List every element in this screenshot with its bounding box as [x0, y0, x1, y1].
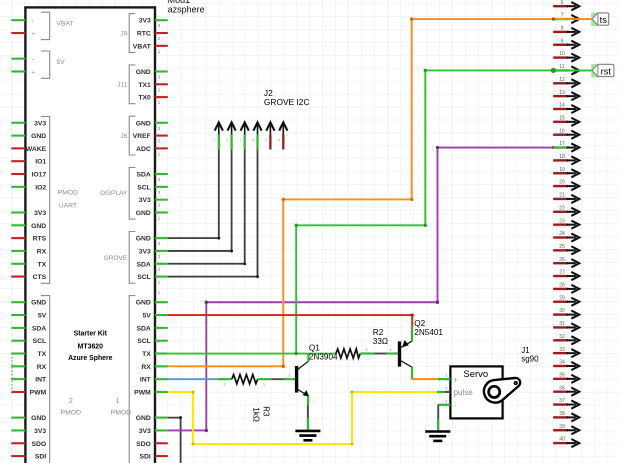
svg-text:3: 3 [158, 74, 161, 80]
wire GROVE 3V3 to J2 (black) [168, 150, 233, 253]
wire GROVE SDA to J2 (black) [168, 150, 246, 266]
connector J9 pins [120, 14, 167, 55]
svg-text:Azure Sphere: Azure Sphere [68, 355, 113, 362]
header pin 17 [553, 141, 579, 152]
header pin 15 [553, 115, 579, 126]
svg-text:-: - [32, 18, 34, 25]
svg-text:2: 2 [69, 398, 73, 405]
svg-text:J1: J1 [521, 346, 530, 355]
header pin 20 [553, 180, 579, 191]
svg-text:3V3: 3V3 [34, 120, 46, 127]
svg-text:38: 38 [559, 411, 565, 417]
svg-text:SDO: SDO [31, 441, 46, 448]
svg-text:2: 2 [158, 87, 161, 93]
svg-text:PMOD: PMOD [58, 190, 78, 197]
svg-text:13: 13 [559, 90, 565, 96]
svg-text:RTC: RTC [137, 31, 151, 38]
svg-text:3V3: 3V3 [34, 210, 46, 217]
header pin 26 [553, 257, 579, 268]
header pin 12 [553, 77, 579, 88]
svg-text:3V3: 3V3 [139, 248, 151, 255]
svg-text:DISPLAY: DISPLAY [100, 190, 128, 197]
svg-text:PWM: PWM [134, 389, 151, 396]
svg-text:PWM: PWM [30, 389, 47, 396]
svg-text:TX0: TX0 [138, 95, 151, 102]
label Mod1 azsphere [168, 0, 205, 14]
svg-text:20: 20 [559, 180, 565, 186]
svg-text:RX: RX [37, 364, 47, 371]
svg-text:GND: GND [31, 300, 46, 307]
svg-text:6: 6 [278, 139, 280, 143]
svg-text:GND: GND [31, 223, 46, 230]
svg-text:14: 14 [559, 103, 565, 109]
svg-text:3: 3 [158, 126, 161, 132]
svg-text:23: 23 [559, 218, 565, 224]
header pin 14 [553, 103, 579, 114]
header pin 37 [553, 398, 579, 409]
servo J1 sg90 [437, 366, 520, 418]
svg-text:30: 30 [559, 308, 565, 314]
svg-text:Q1: Q1 [309, 344, 320, 353]
module MT3620 Azure Sphere Starter Kit body [25, 7, 155, 463]
svg-text:34: 34 [559, 360, 565, 366]
header pin 23 [553, 218, 579, 229]
header pin 9 [553, 38, 579, 49]
svg-text:1: 1 [158, 151, 161, 157]
header pin 22 [553, 205, 579, 216]
svg-text:GND: GND [136, 69, 151, 76]
svg-text:1: 1 [116, 398, 120, 405]
svg-text:7: 7 [561, 13, 564, 19]
svg-text:22: 22 [559, 205, 565, 211]
svg-text:VBAT: VBAT [56, 20, 73, 27]
header pin 36 [553, 385, 579, 396]
svg-text:RX: RX [37, 248, 47, 255]
svg-text:SDA: SDA [136, 172, 150, 179]
wire GROVE SCL to J2 (black) [168, 150, 259, 279]
wire TX / Q1 collector to net rst (green) [168, 68, 592, 355]
svg-text:SDA: SDA [32, 325, 46, 332]
header pin 30 [553, 308, 579, 319]
svg-text:ADC: ADC [136, 146, 151, 153]
wire INT to R3 (blue) [168, 378, 218, 380]
svg-text:6: 6 [561, 0, 564, 6]
svg-text:1: 1 [158, 280, 161, 286]
svg-text:2N3904: 2N3904 [309, 352, 338, 361]
wire PMOD1 GND down (black) [168, 416, 182, 463]
svg-text:J6: J6 [120, 133, 127, 140]
svg-text:5V: 5V [38, 313, 47, 320]
svg-text:IO2: IO2 [35, 184, 46, 191]
connector PMOD 1 pins (right) [111, 290, 168, 463]
header pin 39 [553, 424, 579, 435]
svg-text:PMOD: PMOD [111, 410, 131, 417]
svg-text:+: + [31, 31, 35, 38]
net flag rst [591, 64, 614, 77]
svg-text:3V3: 3V3 [139, 18, 151, 25]
svg-text:IO1: IO1 [35, 159, 46, 166]
svg-text:2: 2 [226, 139, 228, 143]
svg-text:TX: TX [38, 261, 47, 268]
wire PWM to servo pulse (yellow) [168, 390, 437, 445]
svg-text:GROVE I2C: GROVE I2C [264, 97, 310, 107]
svg-text:J9: J9 [120, 30, 127, 37]
svg-text:9: 9 [561, 38, 564, 44]
svg-text:SCL: SCL [33, 338, 47, 345]
svg-text:2: 2 [445, 386, 447, 390]
svg-text:1: 1 [158, 49, 161, 55]
svg-text:GND: GND [136, 300, 151, 307]
svg-text:33Ω: 33Ω [373, 337, 388, 346]
svg-text:R3: R3 [262, 406, 271, 417]
svg-text:MT3620: MT3620 [78, 343, 103, 350]
svg-text:SCL: SCL [137, 184, 151, 191]
svg-text:2: 2 [158, 267, 161, 273]
svg-text:Servo: Servo [463, 369, 488, 380]
svg-text:GND: GND [136, 120, 151, 127]
svg-text:3: 3 [239, 139, 241, 143]
svg-text:+: + [454, 377, 458, 384]
svg-text:32: 32 [559, 334, 565, 340]
svg-text:10: 10 [559, 51, 565, 57]
svg-text:4: 4 [158, 177, 161, 183]
svg-text:TX: TX [38, 351, 47, 358]
header pin 11 [553, 64, 579, 75]
svg-text:SCL: SCL [137, 274, 151, 281]
svg-text:SDO: SDO [136, 441, 151, 448]
svg-text:GND: GND [31, 133, 46, 140]
svg-text:SDI: SDI [35, 454, 46, 461]
transistor Q2 2N5401 [386, 326, 412, 380]
svg-text:3: 3 [445, 399, 447, 403]
connector PMOD UART pins [11, 117, 78, 284]
header pin 24 [553, 231, 579, 242]
label R2 33Ω [373, 328, 388, 346]
svg-text:12: 12 [559, 77, 565, 83]
connector GROVE pins [104, 232, 168, 286]
svg-text:3: 3 [158, 190, 161, 196]
svg-text:33: 33 [559, 347, 565, 353]
header pin 18 [553, 154, 579, 165]
header pin 10 [553, 51, 579, 62]
junction pin7/orange [553, 18, 592, 20]
resistor R3 [218, 375, 284, 387]
svg-text:26: 26 [559, 257, 565, 263]
svg-text:1: 1 [213, 139, 215, 143]
svg-text:31: 31 [559, 321, 565, 327]
svg-text:37: 37 [559, 398, 565, 404]
svg-text:RTS: RTS [33, 236, 47, 243]
resistor R2 [336, 347, 393, 358]
svg-text:PMOD: PMOD [61, 410, 81, 417]
svg-text:36: 36 [559, 385, 565, 391]
svg-text:39: 39 [559, 424, 565, 430]
header pin 40 [553, 437, 579, 448]
svg-text:SDI: SDI [139, 454, 150, 461]
svg-text:UART: UART [59, 202, 77, 209]
svg-text:5V: 5V [56, 59, 65, 66]
svg-text:Q2: Q2 [414, 319, 425, 328]
connector J6 pins [120, 116, 167, 157]
svg-text:TX1: TX1 [138, 82, 151, 89]
ground G1 [295, 418, 320, 440]
header pin 27 [553, 270, 579, 281]
svg-text:Starter Kit: Starter Kit [74, 331, 108, 338]
header pin 21 [553, 193, 579, 204]
svg-text:GND: GND [31, 415, 46, 422]
svg-text:5: 5 [265, 139, 267, 143]
svg-text:4: 4 [158, 241, 161, 247]
header pin 35 [553, 372, 579, 383]
header pin 25 [553, 244, 579, 255]
svg-text:GND: GND [136, 415, 151, 422]
svg-text:25: 25 [559, 244, 565, 250]
label Q1 2N3904 [309, 344, 338, 362]
connector PMOD 2 pins (left) [11, 296, 81, 463]
svg-text:ts: ts [600, 15, 608, 25]
svg-text:-: - [32, 56, 34, 63]
header pin 19 [553, 167, 579, 178]
wire Q1 emitter to ground (gray) [307, 405, 309, 418]
svg-text:INT: INT [35, 377, 47, 384]
svg-text:3V3: 3V3 [139, 428, 151, 435]
header pin 7 [553, 13, 579, 24]
label Q2 2N5401 [414, 319, 443, 337]
svg-text:VBAT: VBAT [133, 43, 152, 50]
ground G2 [425, 419, 450, 441]
svg-text:15: 15 [559, 115, 565, 121]
svg-text:GROVE: GROVE [104, 255, 128, 262]
svg-text:GND: GND [136, 236, 151, 243]
svg-text:+: + [31, 69, 35, 76]
svg-text:24: 24 [559, 231, 565, 237]
svg-text:3V3: 3V3 [34, 428, 46, 435]
header pin 29 [553, 295, 579, 306]
wire Q2 collector to servo + (orange) [412, 378, 438, 380]
connector DISPLAY pins [100, 167, 168, 221]
svg-text:pulse: pulse [454, 388, 474, 397]
svg-text:40: 40 [559, 437, 565, 443]
svg-text:VREF: VREF [133, 133, 151, 140]
header pin 34 [553, 360, 579, 371]
header pin 31 [553, 321, 579, 332]
header pin 13 [553, 90, 579, 101]
svg-text:3: 3 [158, 254, 161, 260]
svg-text:SCL: SCL [137, 338, 151, 345]
svg-text:CTS: CTS [33, 274, 47, 281]
svg-text:1: 1 [158, 216, 161, 222]
wire RX to net ts (orange) [168, 17, 592, 368]
svg-text:INT: INT [140, 377, 152, 384]
header pin 28 [553, 283, 579, 294]
header pin 16 [553, 128, 579, 139]
header pin 38 [553, 411, 579, 422]
svg-text:GND: GND [136, 210, 151, 217]
svg-text:4: 4 [252, 139, 254, 143]
svg-text:2: 2 [158, 203, 161, 209]
label J2 GROVE I2C [264, 88, 310, 107]
svg-text:WAKE: WAKE [26, 146, 47, 153]
wire 5V to Q2 emitter (red) [168, 313, 414, 326]
svg-text:16: 16 [559, 128, 565, 134]
junction pin11/green [553, 69, 592, 71]
svg-text:rst: rst [601, 67, 612, 77]
header pin 32 [553, 334, 579, 345]
svg-text:J11: J11 [117, 82, 127, 89]
svg-text:1: 1 [445, 374, 447, 378]
svg-text:3V3: 3V3 [139, 197, 151, 204]
svg-text:SDA: SDA [136, 261, 150, 268]
svg-text:35: 35 [559, 372, 565, 378]
connector J11 pins [117, 65, 168, 106]
header pin 33 [553, 347, 579, 358]
header pin 6 [553, 0, 579, 10]
svg-text:3: 3 [158, 23, 161, 29]
svg-text:IO17: IO17 [31, 172, 46, 179]
net flag ts [591, 13, 609, 26]
label R3 1kΩ (rotated) [251, 406, 270, 422]
svg-text:19: 19 [559, 167, 565, 173]
svg-text:1kΩ: 1kΩ [251, 407, 260, 421]
svg-text:8: 8 [561, 26, 564, 32]
svg-text:27: 27 [559, 270, 565, 276]
label J1 sg90 [521, 346, 539, 364]
wire 3V3 to header pin 17 (purple) [168, 146, 555, 432]
transistor Q1 2N3904 [284, 354, 310, 405]
svg-text:1: 1 [158, 100, 161, 106]
svg-text:TX: TX [142, 351, 151, 358]
wire servo - to ground (black) [437, 405, 439, 419]
svg-text:28: 28 [559, 283, 565, 289]
svg-text:azsphere: azsphere [168, 4, 205, 14]
svg-text:17: 17 [559, 141, 565, 147]
svg-text:SDA: SDA [136, 325, 150, 332]
svg-text:2: 2 [158, 139, 161, 145]
svg-text:5V: 5V [142, 313, 151, 320]
ratsnest TX-RX-INT-PWM (dotted) [11, 354, 13, 392]
connector J2 GROVE I2C (6 pins up) [213, 122, 287, 149]
svg-text:RX: RX [141, 364, 151, 371]
svg-text:2N5401: 2N5401 [414, 328, 443, 337]
svg-text:29: 29 [559, 295, 565, 301]
svg-text:sg90: sg90 [521, 355, 539, 364]
svg-text:2: 2 [158, 36, 161, 42]
svg-text:R2: R2 [373, 328, 384, 337]
header pin 8 [553, 26, 579, 37]
svg-text:21: 21 [559, 193, 565, 199]
wire GROVE GND to J2 (black) [168, 150, 221, 240]
label Starter Kit MT3620 Azure Sphere [68, 331, 113, 362]
svg-text:11: 11 [559, 64, 564, 70]
svg-text:18: 18 [559, 154, 565, 160]
connector 5V (pins - +) [11, 51, 65, 78]
connector VBAT (pins - +) [11, 12, 73, 39]
